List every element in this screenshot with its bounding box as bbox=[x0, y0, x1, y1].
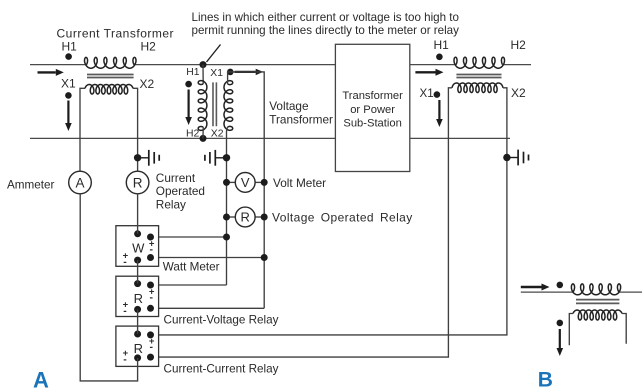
current transformer CT2 primary coil bbox=[454, 57, 505, 68]
ammeter A bbox=[69, 171, 92, 194]
annotation text line 1 bbox=[192, 11, 459, 24]
label Voltage Operated Relay bbox=[272, 211, 413, 225]
wire: bottom bus line L2 (right section) bbox=[410, 137, 510, 139]
voltage transformer label bbox=[269, 99, 333, 127]
svg-text:Voltage Operated Relay: Voltage Operated Relay bbox=[272, 211, 413, 225]
node: VT primary bottom junction on bottom bus bbox=[200, 135, 207, 142]
ground: CT2 secondary ground tap bbox=[503, 150, 528, 166]
svg-text:-: - bbox=[123, 256, 127, 268]
label Volt Meter bbox=[273, 176, 326, 190]
label H2 (CT1 primary) bbox=[141, 40, 157, 54]
svg-text:-: - bbox=[150, 341, 154, 353]
wire: volt meter right stub bbox=[255, 181, 264, 183]
current direction arrow out of CT2 X1 bbox=[436, 100, 443, 127]
annotation leader slash bbox=[207, 45, 221, 63]
node X1 polarity dot (CT1) bbox=[65, 92, 72, 99]
svg-text:Volt Meter: Volt Meter bbox=[273, 176, 326, 190]
current transformer CT3 core bbox=[576, 300, 619, 304]
label H2 (CT2 primary) bbox=[511, 38, 527, 52]
svg-text:X2: X2 bbox=[511, 86, 526, 100]
node X1 polarity dot (CT2) bbox=[434, 91, 441, 98]
svg-text:Current Transformer: Current Transformer bbox=[57, 27, 175, 41]
svg-text:X2: X2 bbox=[140, 77, 155, 91]
svg-text:Current-Current Relay: Current-Current Relay bbox=[164, 363, 279, 376]
ground: CT1 secondary ground tap bbox=[134, 150, 159, 166]
current transformer CT1 label bbox=[57, 27, 175, 41]
relay R (voltage operated) bbox=[235, 207, 255, 227]
wire: VT primary bottom lead bbox=[202, 127, 204, 138]
svg-text:Relay: Relay bbox=[156, 197, 186, 211]
node: voltage relay right terminal bbox=[261, 214, 268, 221]
current transformer CT2 secondary coil bbox=[452, 83, 503, 93]
svg-text:-: - bbox=[150, 291, 154, 303]
node H1 polarity dot (CT2) bbox=[436, 54, 443, 61]
wire: VT secondary X2 lead down vertical run bbox=[227, 127, 228, 285]
wire: current-voltage relay top-right terminal wire bbox=[151, 284, 227, 286]
current transformer CT3 primary coil bbox=[571, 284, 620, 295]
svg-text:Watt Meter: Watt Meter bbox=[163, 260, 220, 273]
label X1 (CT1 secondary) bbox=[61, 77, 76, 91]
annotation text line 2 bbox=[192, 24, 460, 37]
svg-text:W: W bbox=[132, 241, 145, 256]
node: volt meter right terminal bbox=[261, 179, 268, 186]
wire: top bus line L1 (right section) bbox=[410, 64, 531, 66]
svg-text:-: - bbox=[123, 354, 127, 366]
node X1 polarity dot (CT3) bbox=[557, 320, 564, 327]
svg-text:-: - bbox=[150, 243, 154, 255]
node: VT primary junction on top bus bbox=[200, 61, 207, 68]
wire: VT secondary X1 lead to vertical run bbox=[228, 72, 265, 308]
svg-text:permit running the lines direc: permit running the lines directly to the… bbox=[192, 24, 460, 37]
wire: voltage relay left stub bbox=[227, 216, 236, 218]
label H1 (VT primary) bbox=[186, 67, 200, 78]
wire: CT3 secondary right lead bbox=[622, 314, 626, 344]
volt meter V bbox=[235, 173, 255, 193]
label H1 (CT1 primary) bbox=[62, 40, 78, 54]
block: transformer or power sub-station bbox=[335, 44, 409, 171]
svg-text:X2: X2 bbox=[211, 128, 224, 139]
voltage transformer VT primary coil bbox=[198, 81, 207, 131]
label Ammeter bbox=[7, 179, 55, 192]
svg-text:H1: H1 bbox=[62, 40, 78, 54]
svg-text:-: - bbox=[123, 305, 127, 317]
node X1 dot on VT secondary wire bbox=[227, 69, 234, 76]
wire: VT primary top lead bbox=[202, 65, 204, 84]
node H1 polarity dot (CT3) bbox=[557, 282, 564, 289]
svg-text:Transformer: Transformer bbox=[342, 90, 403, 102]
node: VT H-side current dot bbox=[185, 81, 192, 88]
node: volt meter left terminal bbox=[223, 179, 230, 186]
svg-text:R: R bbox=[134, 341, 143, 356]
label X1 (CT2 secondary) bbox=[420, 87, 434, 100]
node H1 polarity dot (CT1) bbox=[65, 53, 72, 60]
label X2 (CT1 secondary) bbox=[140, 77, 155, 91]
svg-text:Ammeter: Ammeter bbox=[7, 179, 55, 192]
wire: CT2 secondary X1 lead down to current-current relay bbox=[151, 88, 453, 357]
svg-text:X1: X1 bbox=[210, 68, 223, 79]
current transformer CT3 secondary coil bbox=[573, 310, 622, 320]
svg-text:X1: X1 bbox=[420, 87, 434, 100]
current transformer CT1 secondary coil bbox=[85, 85, 133, 95]
label Watt Meter bbox=[163, 260, 220, 273]
watt meter W box bbox=[116, 226, 159, 268]
svg-text:H2: H2 bbox=[511, 38, 527, 52]
relay R (current operated) bbox=[126, 171, 149, 194]
current direction arrow into CT3 bbox=[521, 284, 550, 291]
voltage transformer VT secondary coil bbox=[224, 81, 233, 131]
wire: CT1 secondary X2 lead down bbox=[133, 88, 138, 171]
svg-text:H2: H2 bbox=[186, 128, 200, 139]
current transformer CT2 core bbox=[456, 75, 501, 78]
current-current relay box bbox=[116, 326, 159, 366]
svg-text:R: R bbox=[133, 175, 143, 190]
svg-text:Current: Current bbox=[156, 171, 196, 185]
svg-text:H1: H1 bbox=[186, 67, 200, 78]
node: voltage relay left terminal bbox=[223, 214, 230, 221]
label current operated relay bbox=[156, 171, 205, 212]
svg-text:R: R bbox=[241, 210, 250, 225]
current direction arrow down VT primary bbox=[185, 90, 192, 126]
svg-text:R: R bbox=[134, 291, 143, 306]
wire: CT3 primary line bbox=[521, 291, 642, 293]
label X2 (VT secondary) bbox=[211, 128, 224, 139]
node: junction watt meter potential coil bbox=[223, 234, 230, 241]
wire: CT2 secondary X2 lead down to current-current relay bbox=[151, 88, 507, 335]
wire: CT3 secondary left lead bbox=[569, 314, 573, 346]
node: junction watt meter current coil bbox=[261, 254, 268, 261]
label Current-Current Relay bbox=[164, 363, 279, 376]
label A (location marker) bbox=[33, 367, 49, 390]
wire: CT1 secondary X1 lead down to ammeter bbox=[80, 88, 85, 171]
current direction arrow out of CT3 bbox=[557, 329, 564, 356]
svg-text:Sub-Station: Sub-Station bbox=[343, 118, 401, 130]
label H2 (VT primary) bbox=[186, 128, 200, 139]
current-voltage relay box bbox=[116, 276, 159, 317]
current transformer CT1 core bbox=[87, 75, 134, 78]
wire: watt meter bottom-right terminal to VT X1 line bbox=[151, 257, 265, 259]
wire: volt meter left stub bbox=[227, 181, 236, 183]
wire: bottom bus line L2 (left section) bbox=[30, 137, 335, 139]
wire: CT1 X2 line ground-to-relay section bbox=[137, 194, 139, 234]
svg-text:Current-Voltage Relay: Current-Voltage Relay bbox=[164, 313, 279, 326]
svg-text:Voltage: Voltage bbox=[269, 99, 309, 113]
label H1 (CT2 primary) bbox=[434, 38, 450, 52]
svg-text:H1: H1 bbox=[434, 38, 450, 52]
svg-text:Operated: Operated bbox=[156, 184, 205, 198]
label X1 (VT secondary) bbox=[210, 68, 223, 79]
wire: watt meter to current-voltage relay link bbox=[137, 260, 139, 284]
svg-text:V: V bbox=[241, 175, 250, 190]
svg-text:A: A bbox=[75, 175, 84, 190]
current transformer CT1 primary coil bbox=[85, 57, 137, 68]
wire: current-voltage to current-current relay link bbox=[137, 309, 139, 334]
svg-text:B: B bbox=[538, 369, 553, 390]
wire: watt meter top-right terminal to VT secondary line bbox=[151, 236, 227, 238]
svg-text:Transformer: Transformer bbox=[269, 113, 333, 127]
current direction arrow out of CT1 X1 bbox=[65, 101, 72, 132]
label B (location marker) bbox=[538, 369, 553, 390]
wire: current-current relay return to ammeter bbox=[80, 194, 137, 381]
label X2 (CT2 secondary) bbox=[511, 86, 526, 100]
wire: top bus line L1 (left section) bbox=[30, 64, 335, 66]
ground: VT secondary ground tap bbox=[205, 150, 230, 166]
svg-text:Lines in which either current: Lines in which either current or voltage… bbox=[192, 11, 459, 24]
wire: voltage relay right stub bbox=[255, 216, 264, 218]
svg-text:A: A bbox=[33, 367, 49, 390]
svg-text:H2: H2 bbox=[141, 40, 157, 54]
voltage transformer VT core bbox=[213, 82, 216, 126]
svg-text:X1: X1 bbox=[61, 77, 76, 91]
current direction arrow out of VT X1 bbox=[235, 69, 264, 75]
svg-text:or Power: or Power bbox=[350, 104, 395, 116]
current direction arrow into CT2 H1 bbox=[415, 69, 443, 76]
label Current-Voltage Relay bbox=[164, 313, 279, 326]
current direction arrow into CT1 H1 bbox=[38, 69, 64, 76]
wire: current-voltage relay bottom-right terminal wire bbox=[151, 307, 265, 309]
